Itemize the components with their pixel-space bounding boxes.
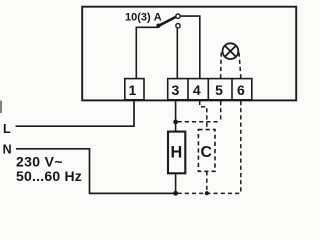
wire dashed terminal 6 down to bottom run bbox=[240, 101, 242, 192]
wire dashed terminal 5 down to node A bbox=[220, 101, 222, 122]
svg-text:N: N bbox=[3, 143, 12, 157]
wire N line down and along bottom to heater bbox=[16, 149, 176, 194]
terminal divider 3/4 bbox=[187, 79, 189, 100]
wire L line to terminal 1 bbox=[16, 100, 135, 126]
svg-text:C: C bbox=[200, 144, 211, 161]
wire switch contact to terminal 4 bbox=[180, 16, 200, 79]
svg-text:H: H bbox=[171, 144, 183, 162]
wire heater H bottom to N bottom wire bbox=[175, 173, 177, 193]
wire from terminal 1 up to switch pivot bbox=[136, 27, 158, 78]
device outline U1 (thermostat body) bbox=[82, 7, 296, 101]
wire dashed lamp left lead to terminal 5 bbox=[220, 53, 223, 79]
svg-text:6: 6 bbox=[237, 82, 245, 98]
svg-text:3: 3 bbox=[172, 82, 180, 98]
svg-text:5: 5 bbox=[215, 82, 223, 98]
terminal 1 bbox=[125, 79, 144, 100]
wire switch contact to terminal 3 bbox=[176, 28, 178, 79]
svg-text:1: 1 bbox=[129, 82, 137, 98]
svg-text:10(3) A: 10(3) A bbox=[125, 11, 162, 23]
terminal divider 4/5 bbox=[207, 79, 209, 100]
switch S1 lever bbox=[158, 17, 176, 26]
switch S1 contact to terminal 3 bbox=[176, 24, 180, 28]
cooler C load box (dashed, optional) bbox=[198, 130, 215, 172]
terminal block 3-6 outline bbox=[168, 79, 252, 100]
wire dashed lamp right lead to terminal 6 bbox=[239, 53, 241, 79]
node C junction dot bbox=[205, 191, 209, 195]
node B junction dot bbox=[173, 191, 178, 196]
node A junction dot bbox=[173, 120, 178, 125]
svg-text:L: L bbox=[3, 122, 11, 136]
svg-text:50...60 Hz: 50...60 Hz bbox=[16, 168, 82, 184]
wire dashed terminal 4 jog down to cooler C bbox=[200, 101, 207, 130]
svg-text:4: 4 bbox=[193, 82, 201, 98]
heater H load box bbox=[168, 132, 185, 174]
svg-text:230 V~: 230 V~ bbox=[16, 153, 63, 169]
wire dashed cooler C bottom to node B bbox=[206, 171, 208, 192]
switch S1 contact to terminal 4 bbox=[176, 14, 180, 18]
lamp DS1 bbox=[223, 43, 239, 59]
scan artifact smudge left edge upper bbox=[0, 101, 2, 114]
switch S1 pivot dot bbox=[156, 24, 160, 28]
wire dashed node A horizontal run bbox=[178, 121, 221, 123]
terminal divider 5/6 bbox=[231, 79, 233, 100]
wire dashed bottom run to terminal 6 drop bbox=[178, 192, 241, 194]
wire terminal 3 down to heater H bbox=[175, 100, 177, 132]
